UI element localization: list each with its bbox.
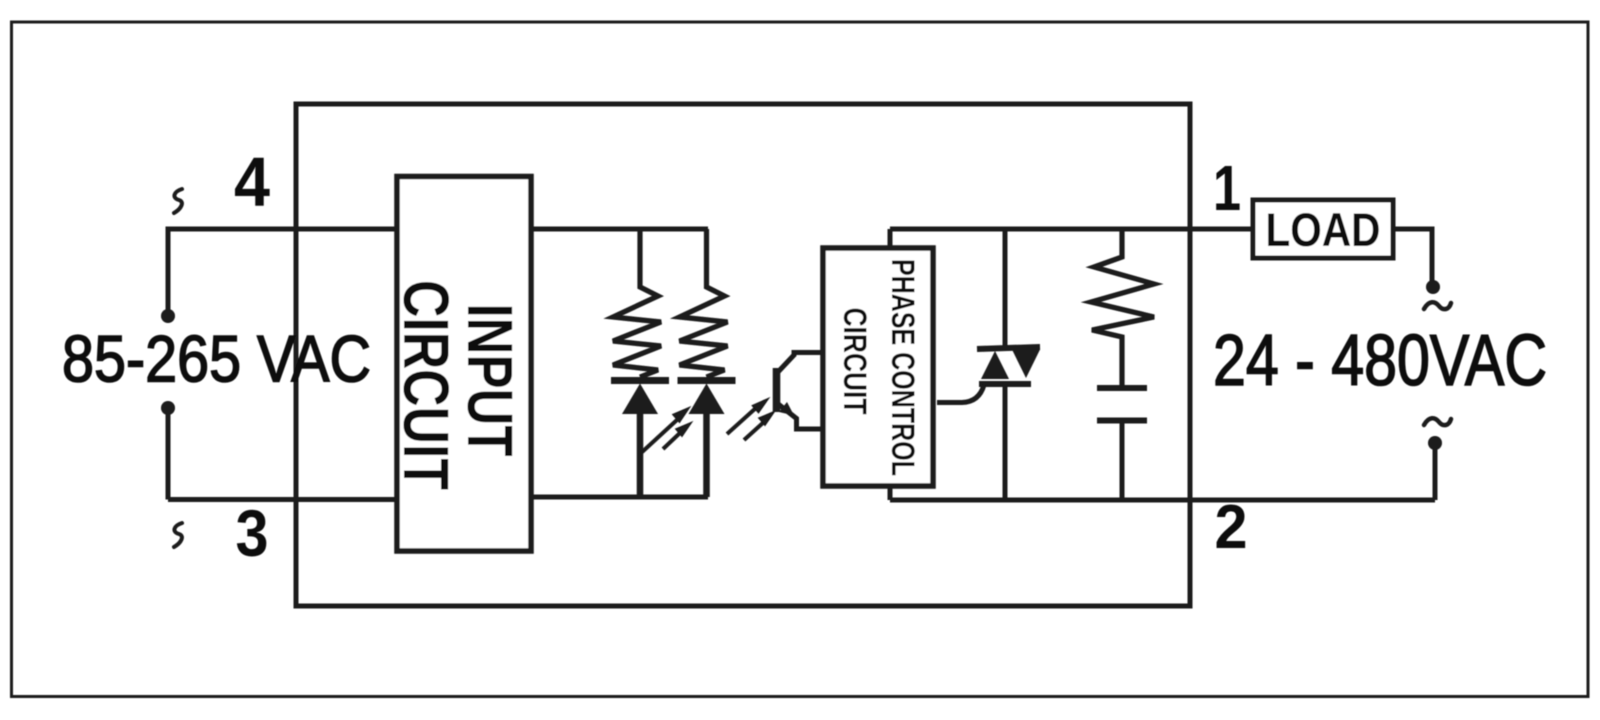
light arrows into phototransistor bbox=[727, 398, 775, 440]
svg-text:1: 1 bbox=[1213, 152, 1241, 224]
wire AC bottom bbox=[1433, 443, 1438, 500]
phase control label bbox=[837, 259, 921, 476]
node dot top left bbox=[161, 309, 175, 323]
wire input top bbox=[531, 227, 708, 232]
terminal 4 wire bbox=[168, 229, 397, 316]
svg-text:24 - 480VAC: 24 - 480VAC bbox=[1213, 321, 1547, 401]
node dot AC top bbox=[1426, 280, 1440, 294]
squiggle bottom bbox=[174, 523, 182, 547]
phase control circuit box U2 bbox=[823, 248, 933, 486]
wire output top bbox=[890, 227, 1252, 232]
node dot AC bottom bbox=[1428, 436, 1442, 450]
phototransistor Q1 bbox=[777, 353, 824, 430]
wire input bottom bbox=[531, 495, 708, 500]
resistor R2 bbox=[680, 229, 728, 377]
triac Q2 bbox=[937, 347, 1040, 403]
tilde AC bottom bbox=[1424, 418, 1451, 425]
svg-text:INPUT: INPUT bbox=[454, 304, 526, 457]
svg-text:3: 3 bbox=[236, 496, 269, 570]
svg-text:85-265 VAC: 85-265 VAC bbox=[62, 322, 371, 396]
wire output bottom bbox=[890, 498, 1435, 503]
squiggle top bbox=[174, 189, 182, 213]
svg-text:CIRCUIT: CIRCUIT bbox=[390, 280, 462, 490]
light arrows from LEDs bbox=[641, 407, 692, 453]
snubber resistor R3 bbox=[1091, 229, 1154, 385]
svg-text:LOAD: LOAD bbox=[1266, 203, 1381, 256]
phototransistor emitter arrowhead bbox=[779, 402, 794, 416]
SSR module outline bbox=[296, 104, 1190, 606]
LOAD box bbox=[1253, 200, 1393, 258]
svg-text:4: 4 bbox=[234, 143, 270, 221]
input circuit box U1 bbox=[397, 177, 531, 552]
terminal 3 wire bbox=[168, 408, 397, 500]
svg-text:2: 2 bbox=[1215, 493, 1248, 562]
svg-text:PHASE CONTROL: PHASE CONTROL bbox=[885, 259, 921, 476]
tilde AC top bbox=[1424, 302, 1451, 309]
stub phase box top bbox=[888, 229, 893, 248]
triac branch wire bbox=[1003, 229, 1008, 500]
snubber capacitor C1 bbox=[1097, 388, 1147, 500]
svg-text:CIRCUIT: CIRCUIT bbox=[837, 308, 873, 415]
LED D2 bbox=[678, 381, 736, 498]
node dot lower left bbox=[161, 401, 175, 415]
wire LOAD to AC source bbox=[1393, 229, 1432, 287]
stub phase box bottom bbox=[888, 486, 893, 500]
input circuit label bbox=[390, 280, 526, 490]
LED D1 bbox=[611, 381, 669, 498]
resistor R1 bbox=[613, 229, 661, 377]
